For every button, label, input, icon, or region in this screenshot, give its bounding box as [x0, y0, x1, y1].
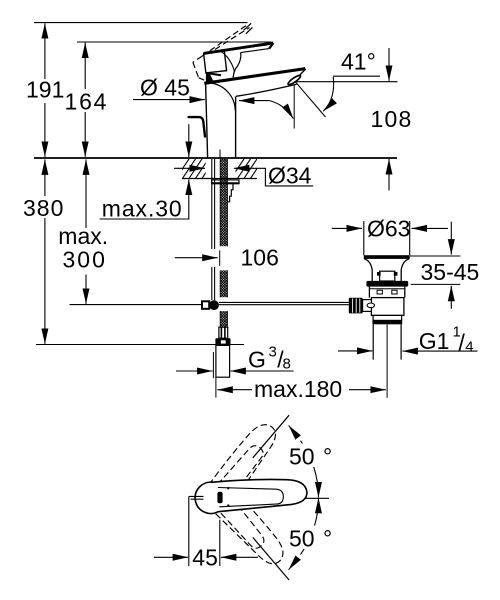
mounting nut steps [227, 184, 233, 202]
mounting flange [212, 180, 239, 184]
svg-text:191: 191 [26, 77, 64, 103]
svg-text:8: 8 [283, 356, 291, 373]
drain lower step [373, 315, 402, 320]
svg-text:41°: 41° [341, 49, 376, 75]
drain flange band [366, 281, 408, 287]
svg-text:45: 45 [192, 545, 218, 571]
svg-text:300: 300 [63, 246, 107, 272]
faucet body left edge [206, 83, 208, 158]
dimension 35-45 [450, 222, 452, 255]
svg-text:°: ° [323, 526, 332, 552]
body centerline stub [219, 150, 221, 158]
text 50deg upper [288, 444, 318, 468]
handle stub [189, 496, 204, 566]
41deg underline [333, 75, 380, 77]
G38 nipple [216, 345, 230, 377]
dimension 45 [154, 556, 188, 558]
reference line 191 top [34, 22, 248, 24]
body transition arc [210, 83, 235, 110]
drain knurled knob [349, 298, 363, 314]
dimension max180 [217, 389, 252, 391]
svg-text:G: G [248, 347, 266, 373]
lever underside [241, 49, 270, 53]
lower 50deg arc [301, 498, 319, 555]
deck bottom line [182, 178, 257, 180]
dimension max30 [188, 124, 190, 157]
dimension 164 vertical [84, 43, 86, 89]
handle logo bar [217, 492, 222, 503]
spout tip extension line [293, 85, 295, 129]
svg-text:max.180: max.180 [254, 376, 342, 402]
handle joint shadow wedge [206, 73, 214, 84]
drain knob stem [363, 300, 372, 312]
lever bevel line [226, 45, 268, 50]
svg-text:max.: max. [58, 223, 108, 249]
text 50deg lower [288, 526, 318, 550]
dashed raised lever [193, 25, 250, 81]
G38 extension line [212, 352, 214, 378]
bottom view solid handle [195, 480, 307, 514]
dimension 191 vertical [44, 23, 46, 79]
svg-text:50: 50 [289, 526, 315, 552]
upper 50deg slant line [253, 415, 289, 458]
svg-text:Ø 45: Ø 45 [140, 74, 190, 100]
svg-text:164: 164 [65, 89, 109, 115]
lever neck [233, 53, 241, 78]
drain top bar [364, 255, 410, 259]
supply hose [220, 159, 227, 327]
lever top edge [204, 43, 274, 54]
faucet centerline below nipple [215, 377, 217, 397]
deck hatching left [176, 159, 215, 179]
dashed lever tip chevron [244, 23, 253, 34]
dimension 108 [388, 48, 390, 81]
max30 underline [100, 218, 190, 220]
drain center knob [380, 271, 395, 281]
svg-text:3: 3 [269, 344, 277, 361]
dimension Ø63 arrows [332, 227, 362, 229]
svg-text:108: 108 [371, 106, 413, 132]
pull rod knob [189, 117, 205, 136]
svg-text:Ø34: Ø34 [268, 163, 312, 189]
reference line max300 rod [70, 304, 203, 306]
reference line 380 bottom [36, 344, 244, 346]
rod ball joint [202, 301, 209, 309]
pop-up rod vertical [212, 159, 215, 300]
drain tailpipe [372, 324, 374, 359]
hose cap [215, 338, 230, 345]
spout underside [236, 84, 297, 96]
handle dots [227, 487, 229, 489]
drain extension lines [363, 221, 365, 255]
lower 50deg slant line [253, 537, 289, 580]
deck counter line [34, 157, 397, 159]
flow leader arc [269, 101, 293, 119]
svg-text:max.30: max.30 [102, 196, 183, 222]
dimension 380 vertical [44, 159, 46, 196]
leader Ø45 [133, 99, 205, 101]
spout outlet [287, 74, 302, 86]
41deg arc arrow [323, 77, 333, 111]
drain bottom bar [372, 320, 402, 324]
spout top edge [204, 69, 305, 84]
handle base block [204, 51, 227, 73]
drain screw ellipse [367, 303, 374, 308]
drain centerline [386, 324, 388, 398]
upper 50deg arc [301, 441, 319, 498]
spout outlet level line [296, 81, 398, 83]
reference line 164 top [77, 41, 271, 43]
41deg slant line [296, 82, 326, 117]
drain neck taper [364, 259, 372, 281]
flow leader arrow left [239, 100, 269, 102]
lever tip face [269, 43, 273, 49]
handle inner outline [218, 488, 283, 507]
axis extension right [305, 497, 329, 499]
bottom view dashed rotated handles [201, 419, 289, 574]
svg-text:106: 106 [241, 245, 279, 271]
dimension G114 arrows [338, 350, 372, 352]
spout tip face [292, 69, 306, 84]
faucet body right edge [235, 97, 237, 158]
svg-text:35-45: 35-45 [421, 259, 480, 285]
drain main body [371, 298, 404, 316]
svg-text:4: 4 [465, 339, 473, 356]
horizontal rod linkage [219, 301, 349, 303]
Ø34 leader elbow [265, 168, 313, 186]
dimension G38 arrows [176, 370, 213, 372]
handle block bottom edge [206, 73, 221, 75]
drain upper body [369, 287, 404, 298]
45 extension right [219, 520, 221, 566]
dimension 106 [175, 257, 218, 259]
svg-text:°: ° [323, 444, 332, 470]
svg-text:Ø63: Ø63 [367, 216, 410, 242]
svg-text:50: 50 [289, 444, 315, 470]
dimension Ø34 arrows [174, 167, 205, 169]
hose connector [219, 327, 228, 338]
svg-text:G1: G1 [419, 328, 450, 354]
dimension max300 vertical [85, 159, 87, 228]
svg-text:380: 380 [23, 195, 64, 221]
deck hatching right [231, 159, 264, 179]
